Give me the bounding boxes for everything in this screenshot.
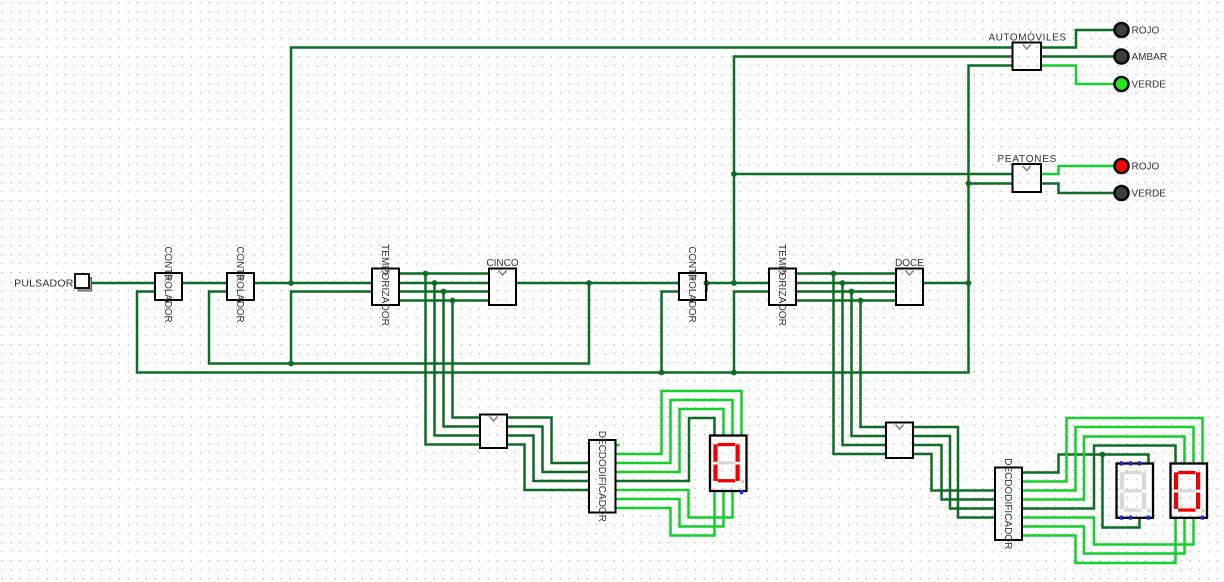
wire T2 out3 row xyxy=(796,290,896,293)
wire drop T2 out4 to U6 in1 xyxy=(861,301,887,428)
svg-text:CONTROLADOR: CONTROLADOR xyxy=(234,246,245,322)
junction bus1 x291 xyxy=(288,361,294,367)
wire T1 out2 row xyxy=(399,282,489,285)
wire T2 out2 row xyxy=(796,282,896,285)
wire DECOD1 out2 high to DISP1 top4 xyxy=(616,391,742,454)
wire U1 feedback / bus2 / right riser to AUTOMOVILES in3 xyxy=(137,66,1013,373)
LED AMBAR (off) xyxy=(1115,50,1129,64)
wire riser x734 + run to AUTOMOVILES in2 xyxy=(734,57,1013,284)
wire drop T1 out1 to U4 in4 xyxy=(426,274,481,445)
wire U2 feedback / bus1 / riser to CINCO row xyxy=(209,283,589,364)
wire drop T1 out3 to U4 in2 xyxy=(444,292,481,427)
wire T1 out4 row xyxy=(399,299,489,302)
wire DECOD2 out5 (low) to DISP3 top1 xyxy=(1022,446,1176,509)
svg-text:AMBAR: AMBAR xyxy=(1132,52,1168,63)
subcircuit U1 CONTROLADOR xyxy=(155,273,182,300)
wire DECOD1 out5 (low) to DISP1 top1 xyxy=(616,418,715,481)
junction T2 out2 xyxy=(840,280,846,286)
wire T1 out3 row xyxy=(399,290,489,293)
wire DECOD2 out7 high to DISP3 bottom2 xyxy=(1022,518,1185,554)
subcircuit PEATONES xyxy=(1013,164,1042,192)
subcircuit U2 CONTROLADOR xyxy=(227,273,254,300)
junction DECOD2 low net branch xyxy=(1100,452,1106,458)
svg-text:CONTROLADOR: CONTROLADOR xyxy=(162,246,173,322)
wire drop T2 out3 to U6 in2 xyxy=(852,292,887,437)
wire U4 out2 to DECOD1 in2 xyxy=(507,427,589,473)
wire DECOD1 out4 high to DISP1 top2 xyxy=(616,409,724,472)
LED VERDE (autos, on) xyxy=(1115,77,1129,91)
wire AUTOMOVILES to LED ROJO xyxy=(1041,30,1114,48)
wire PEATONES to LED VERDE xyxy=(1041,184,1114,194)
wire U2 out to U3 (node A row) xyxy=(254,282,372,285)
subcircuit T2 TEMPORIZADOR xyxy=(769,269,796,306)
wire U6 out3 to DECOD2 in2 xyxy=(913,445,995,500)
LED ROJO (peatones, on) xyxy=(1115,159,1129,173)
wire T2 out4 row xyxy=(796,299,896,302)
junction T1 out4 xyxy=(450,298,456,304)
subcircuit DOCE xyxy=(896,269,923,306)
wire stub DECOD1 out1 xyxy=(616,444,620,447)
wire U5 out to T2 xyxy=(706,282,769,285)
seven-segment display DISP1 showing 0 xyxy=(710,436,747,492)
wire DECOD2 out6 high to DISP3 bottom3 xyxy=(1022,518,1194,545)
junction x734 PEATONES feed xyxy=(731,171,737,177)
wire DECOD2 out4 high to DISP3 top2 xyxy=(1022,437,1185,500)
svg-text:CINCO: CINCO xyxy=(486,258,518,269)
junction T1 out3 xyxy=(441,289,447,295)
wire T1 out1 row xyxy=(399,272,489,275)
wire T2 out1 row xyxy=(796,272,896,275)
wire DECOD1 out3 high to DISP1 top3 xyxy=(616,400,733,463)
seven-segment display DISP3 showing 0 xyxy=(1171,464,1208,518)
svg-text:DECDODIFICADOR: DECDODIFICADOR xyxy=(596,431,607,522)
wire U6 out4 to DECOD2 in1 xyxy=(913,454,995,491)
svg-text:VERDE: VERDE xyxy=(1132,80,1167,91)
wire DECOD1 out7 high to DISP1 bottom2 xyxy=(616,491,724,527)
wire DECOD2 out2 high to DISP3 top4 xyxy=(1022,418,1203,482)
wire AUTOMOVILES to LED AMBAR xyxy=(1041,55,1114,58)
subcircuit U6 xyxy=(886,423,913,459)
subcircuit AUTOMOVILES xyxy=(1013,43,1042,71)
wire U4 out1 to DECOD1 in1 xyxy=(507,418,589,464)
wire T1 in2 from bus1 riser xyxy=(291,292,372,364)
subcircuit CINCO xyxy=(489,269,516,306)
wire U5 feedback to bus2 xyxy=(662,292,680,373)
junction T2 out3 xyxy=(849,289,855,295)
junction T2 out4 xyxy=(858,298,864,304)
wire PULSADOR to U1 xyxy=(89,282,155,285)
junction bus2 x661 xyxy=(659,370,665,376)
junction right riser PEATONES xyxy=(966,181,972,187)
wire to PEATONES in1 xyxy=(734,173,1013,176)
wire U4 out3 to DECOD1 in3 xyxy=(507,436,589,482)
wire U6 out1 to DECOD2 in4 xyxy=(913,427,995,518)
floating pin stubs xyxy=(740,490,743,494)
svg-text:CONTROLADOR: CONTROLADOR xyxy=(686,246,697,322)
svg-text:ROJO: ROJO xyxy=(1132,162,1160,173)
junction CINCO row / bus1 riser xyxy=(586,280,592,286)
wire DECOD2 out1 (low) to DISP2 top4 xyxy=(1022,455,1149,473)
svg-text:DOCE: DOCE xyxy=(895,258,924,269)
junction U5 output stub xyxy=(704,280,710,286)
svg-text:VERDE: VERDE xyxy=(1132,189,1167,200)
wire DECOD1 out8 high to DISP1 bottom1 xyxy=(616,491,715,536)
wire to PEATONES in2 xyxy=(969,182,1013,185)
svg-text:ROJO: ROJO xyxy=(1132,26,1160,37)
junction bus2 x734 xyxy=(731,370,737,376)
wire U6 out2 to DECOD2 in3 xyxy=(913,436,995,509)
wire drop T2 out1 to U6 in4 xyxy=(834,274,887,455)
junction x734 row A xyxy=(731,280,737,286)
svg-text:PEATONES: PEATONES xyxy=(998,154,1058,165)
wire T2 in2 from bus2 riser xyxy=(734,292,769,373)
LED VERDE (peatones, off) xyxy=(1115,186,1129,200)
wire DOCE out to right riser xyxy=(923,282,969,285)
junction T1 out1 xyxy=(423,271,429,277)
subcircuit U5 CONTROLADOR xyxy=(679,273,706,300)
svg-text:PULSADOR: PULSADOR xyxy=(14,278,74,290)
wire DECOD2 out8 high to DISP3 bottom1 xyxy=(1022,518,1176,564)
svg-text:TEMPORIZADOR: TEMPORIZADOR xyxy=(379,244,390,326)
wire stub at U5 output xyxy=(705,283,708,292)
wire U1 out to U2 xyxy=(182,282,227,285)
push button PULSADOR xyxy=(75,274,92,291)
wire AUTOMOVILES to LED VERDE high xyxy=(1041,66,1114,85)
wire DECOD1 out6 high to DISP1 bottom3 xyxy=(616,490,733,518)
svg-text:TEMPORIZADOR: TEMPORIZADOR xyxy=(776,244,787,326)
junction right riser DOCE row xyxy=(966,280,972,286)
svg-text:AUTOMÓVILES: AUTOMÓVILES xyxy=(988,31,1066,44)
node A junction xyxy=(288,280,294,286)
subcircuit DECOD2 DECDODIFICADOR xyxy=(995,468,1022,541)
wire DECOD2 out3 high to DISP3 top3 xyxy=(1022,427,1194,491)
wire branch to DISP2 bottom3 xyxy=(1103,455,1140,528)
wire node A riser + top run to AUTOMOVILES in1 xyxy=(291,48,1013,284)
subcircuit DECOD1 DECDODIFICADOR xyxy=(589,440,616,513)
junction T1 out2 xyxy=(432,280,438,286)
wire drop T2 out2 to U6 in3 xyxy=(843,283,887,445)
wire U4 out4 to DECOD1 in4 xyxy=(507,445,589,491)
seven-segment display DISP2 blank xyxy=(1117,464,1154,518)
junction T2 out1 xyxy=(831,271,837,277)
wire drop T1 out2 to U4 in3 xyxy=(435,283,481,436)
wire PEATONES to LED ROJO high xyxy=(1041,166,1114,174)
wire CINCO out to U5 xyxy=(516,282,679,285)
wire drop T1 out4 to U4 in1 xyxy=(453,301,481,418)
subcircuit U3 TEMPORIZADOR xyxy=(372,269,399,306)
svg-text:DECDODIFICADOR: DECDODIFICADOR xyxy=(1002,458,1013,549)
subcircuit U4 xyxy=(480,415,507,449)
LED ROJO (autos, off) xyxy=(1115,23,1129,37)
